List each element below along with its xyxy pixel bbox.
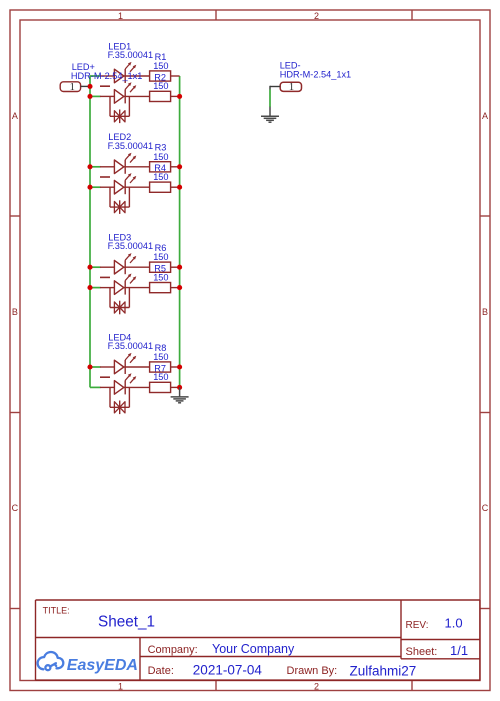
junction [87,94,92,99]
resistor R4 150 (row2) [125,182,179,192]
svg-text:1: 1 [118,11,123,21]
svg-text:1.0: 1.0 [445,616,463,631]
svg-text:150: 150 [153,81,168,91]
svg-text:1/1: 1/1 [450,643,468,658]
junction [87,84,92,89]
svg-text:1: 1 [70,82,75,93]
svg-text:C: C [12,503,19,513]
svg-text:Sheet:: Sheet: [406,646,438,658]
svg-text:2021-07-04: 2021-07-04 [193,663,263,678]
connector LED- HDR-M-2.54_1x1 [280,82,301,91]
svg-text:TITLE:: TITLE: [43,606,70,616]
TVS diode LED4 unit C [110,387,129,414]
svg-text:B: B [12,307,18,317]
wire stub row2 [90,287,101,289]
TVS diode LED3 unit C [110,288,129,315]
LED LED4 unit A [100,353,136,374]
resistor R1 150 (row1) [125,71,179,81]
wire stub row1 [90,75,101,77]
svg-text:C: C [482,503,489,513]
resistor R3 150 (row1) [125,162,179,172]
svg-text:A: A [12,111,18,121]
wire right bus net LED- [179,76,181,387]
svg-text:150: 150 [153,152,168,162]
wire left bus net LED+ [89,76,91,387]
svg-text:Zulfahmi27: Zulfahmi27 [350,664,417,679]
svg-text:F.35.00041: F.35.00041 [108,341,153,351]
resistor R6 150 (row1) [125,262,179,272]
title block [36,600,481,681]
ground (LED- header) [261,107,279,122]
EasyEDA logo [38,652,64,670]
junction [87,265,92,270]
svg-text:150: 150 [153,172,168,182]
svg-text:2: 2 [314,11,319,21]
svg-text:REV:: REV: [406,620,429,631]
wire to ground [269,90,271,108]
svg-text:A: A [482,111,488,121]
svg-text:Date:: Date: [148,665,174,677]
junction [87,164,92,169]
svg-text:F.35.00041: F.35.00041 [108,50,153,60]
junction [177,385,182,390]
junction [87,185,92,190]
junction [177,285,182,290]
resistor R8 150 (row1) [125,362,179,372]
LED4 pin 2 stub [100,376,110,378]
svg-text:HDR-M-2.54_1x1: HDR-M-2.54_1x1 [280,70,351,80]
wire header to bus [81,85,88,87]
svg-text:EasyEDA: EasyEDA [67,657,138,674]
svg-text:Your Company: Your Company [212,642,295,656]
resistor R7 150 (row2) [125,382,179,392]
LED2 pin 2 stub [100,176,110,178]
LED LED1 unit A [100,62,136,83]
wire stub row1 [90,266,101,268]
svg-text:Company:: Company: [148,644,198,656]
LED LED4 unit B [100,373,136,394]
svg-text:Drawn By:: Drawn By: [287,665,338,677]
TVS diode LED1 unit C [110,96,129,123]
svg-text:150: 150 [153,352,168,362]
svg-text:Sheet_1: Sheet_1 [98,614,155,631]
svg-text:1: 1 [118,682,123,692]
svg-text:150: 150 [153,372,168,382]
junction [87,285,92,290]
wire header pin [270,86,280,88]
resistor R5 150 (row2) [125,283,179,293]
LED3 pin 2 stub [100,276,110,278]
svg-text:150: 150 [153,252,168,262]
wire stub row1 [90,366,101,368]
resistor R2 150 (row2) [125,91,179,101]
LED LED1 unit B [100,82,136,103]
svg-text:HDR-M-2.54_1x1: HDR-M-2.54_1x1 [71,71,142,81]
svg-text:150: 150 [153,272,168,282]
junction [177,164,182,169]
wire stub row2 [90,186,101,188]
junction [177,94,182,99]
wire stub row2 [90,95,101,97]
LED1 pin 2 stub [100,85,110,87]
LED LED2 unit B [100,173,136,194]
junction [177,364,182,369]
ground (right bus) [171,387,189,402]
junction [177,265,182,270]
svg-text:1: 1 [289,82,294,93]
junction [177,185,182,190]
LED LED3 unit A [100,253,136,274]
LED LED2 unit A [100,153,136,174]
wire stub row1 [90,166,101,168]
wire stub row2 [90,386,101,388]
junction [87,364,92,369]
TVS diode LED2 unit C [110,187,129,214]
svg-text:2: 2 [314,682,319,692]
svg-text:F.35.00041: F.35.00041 [108,241,153,251]
svg-text:150: 150 [153,61,168,71]
connector LED+ HDR-M-2.54_1x1 [60,82,80,92]
LED LED3 unit B [100,274,136,295]
svg-text:B: B [482,307,488,317]
svg-text:F.35.00041: F.35.00041 [108,141,153,151]
